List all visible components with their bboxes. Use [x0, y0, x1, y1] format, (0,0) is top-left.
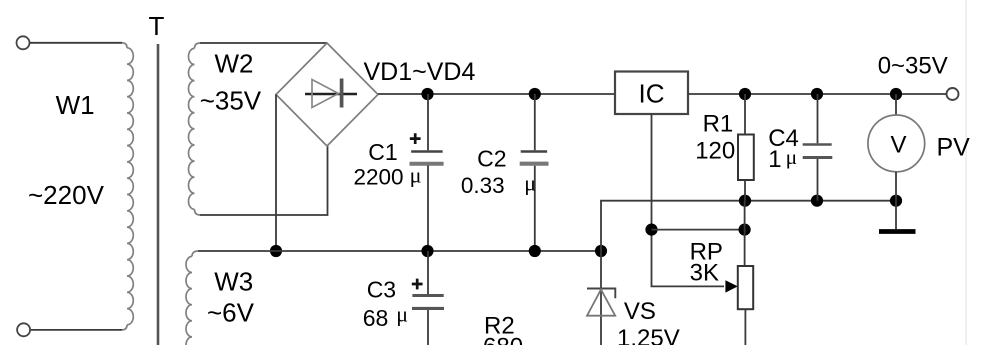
svg-text:120: 120: [695, 138, 735, 165]
node: [739, 224, 751, 236]
svg-text:~220V: ~220V: [28, 180, 105, 210]
node: primary bottom terminal: [17, 323, 30, 336]
label 68u: [363, 301, 408, 331]
svg-text:~6V: ~6V: [207, 298, 255, 328]
winding W3: [186, 251, 198, 345]
resistor R1: [738, 94, 754, 201]
wire: [30, 329, 122, 331]
wire: top rail bridge to IC: [378, 93, 615, 95]
svg-text:W3: W3: [214, 266, 253, 296]
node: [739, 88, 751, 100]
label 0.33u: [461, 171, 536, 198]
node: [890, 88, 902, 100]
wire: RP top lead: [744, 201, 746, 266]
svg-text:T: T: [149, 11, 165, 41]
node: [890, 195, 902, 207]
wire: [30, 42, 122, 44]
svg-text:IC: IC: [639, 79, 665, 109]
svg-text:R1: R1: [703, 111, 734, 138]
node: [421, 88, 433, 100]
svg-text:68: 68: [363, 305, 389, 331]
svg-text:V: V: [891, 132, 907, 159]
node: [811, 88, 823, 100]
svg-text:680: 680: [483, 333, 523, 345]
wire: IC out rail: [688, 93, 947, 95]
node: [270, 245, 282, 257]
svg-text:μ: μ: [524, 171, 536, 196]
svg-text:1: 1: [768, 146, 781, 173]
wire: adj to RP top: [652, 229, 745, 231]
node: primary top terminal: [17, 36, 30, 49]
label 1u: [768, 145, 797, 173]
svg-text:μ: μ: [410, 163, 422, 188]
diode inside bridge: [305, 79, 357, 108]
potentiometer RP: [738, 266, 753, 345]
svg-text:W2: W2: [215, 48, 254, 78]
node: [529, 88, 541, 100]
zener diode VS: [587, 251, 615, 345]
node: [739, 195, 751, 207]
svg-text:0~35V: 0~35V: [878, 53, 948, 80]
wire: common rail: [198, 250, 601, 252]
svg-text:PV: PV: [937, 134, 971, 162]
svg-text:2200: 2200: [354, 165, 404, 190]
capacitor C2: [520, 94, 549, 251]
svg-text:VD1~VD4: VD1~VD4: [364, 58, 476, 86]
svg-text:C1: C1: [368, 139, 397, 165]
voltmeter PV: [868, 94, 925, 201]
node: [595, 245, 607, 257]
regulator IC: [615, 72, 688, 115]
ground: [879, 201, 916, 232]
wiper arrowhead: [725, 280, 737, 292]
svg-text:1.25V: 1.25V: [617, 325, 680, 345]
wire: rail link down: [601, 201, 896, 251]
svg-text:3K: 3K: [690, 259, 719, 286]
svg-text:0.33: 0.33: [461, 173, 505, 198]
bridge rectifier VD1~VD4: [276, 43, 378, 146]
winding W1: [122, 43, 133, 330]
svg-text:μ: μ: [396, 301, 408, 326]
node: output terminal: [947, 88, 959, 100]
capacitor C3: [412, 251, 444, 345]
wire: IC adj lead and wiper drive: [652, 114, 725, 286]
capacitor C1: [410, 94, 444, 251]
node: [645, 224, 657, 236]
wire: [200, 146, 328, 215]
wire: bridge minus output down: [275, 95, 277, 252]
node: [811, 195, 823, 207]
label 2200u: [354, 163, 422, 190]
transformer core T: [157, 44, 160, 345]
node: [421, 245, 433, 257]
svg-text:C3: C3: [367, 277, 396, 303]
svg-text:~35V: ~35V: [200, 85, 262, 115]
wire: [200, 42, 327, 44]
wire: [965, 0, 967, 345]
svg-text:W1: W1: [56, 90, 95, 120]
node: [529, 245, 541, 257]
winding W2: [189, 43, 201, 215]
svg-text:VS: VS: [624, 298, 656, 325]
svg-text:C2: C2: [477, 146, 506, 172]
capacitor C4: [803, 94, 833, 201]
svg-text:μ: μ: [786, 145, 798, 169]
